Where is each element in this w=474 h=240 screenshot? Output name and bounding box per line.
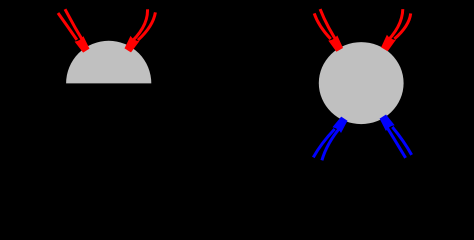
red baryon line, left diagram upper-right: double line	[127, 9, 155, 45]
red baryon line, left diagram upper-left: arrowhead	[75, 36, 90, 53]
blue baryon line, right diagram lower-left: arrowhead	[332, 117, 347, 133]
blue baryon line, right diagram lower-left: double line	[313, 123, 344, 160]
blue baryon line, right diagram lower-right: arrowhead	[380, 115, 395, 132]
red baryon line, right diagram upper-right: double line	[384, 9, 411, 45]
left diagram: gray half-disc blob	[66, 41, 151, 84]
red baryon line, left diagram upper-right: arrowhead	[125, 36, 140, 53]
red baryon line, right diagram upper-left: arrowhead	[328, 35, 343, 51]
right diagram: gray circular blob	[319, 42, 404, 124]
red baryon line, right diagram upper-right: arrowhead	[381, 35, 396, 51]
red baryon line, right diagram upper-left: double line	[314, 9, 339, 46]
blue baryon line, right diagram lower-right: double line	[383, 121, 412, 158]
red baryon line, left diagram upper-left: double line	[58, 9, 86, 46]
